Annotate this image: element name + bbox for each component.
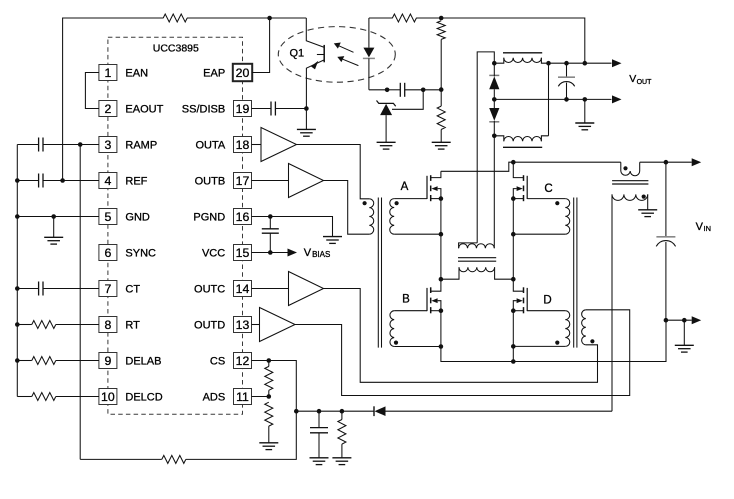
wire A winding bottom lead [394,233,441,235]
transistor Q1 base bar [323,45,325,62]
resistor R-CSfilter [338,420,346,445]
node Vout cap bottom [564,97,569,102]
transformer T3 primary winding [582,310,586,345]
wire REF pin4 line [17,180,38,182]
diode D-CS [373,406,375,416]
node ADS junction [267,394,272,399]
wire PGND pin16 line [252,217,333,237]
node Vin- junction [664,318,669,323]
node CD midpoint [511,277,516,282]
transistor QB channel [430,287,432,293]
wire OUTB pin17 to buffer [252,180,289,182]
diode D-opto LED [368,18,370,48]
transistor QA body arrow [431,186,437,191]
capacitor C-REF [38,174,40,188]
wire bridge return rail [513,320,666,361]
wire OUTA pin18 to buffer [252,144,262,146]
svg-text:BIAS: BIAS [312,250,330,259]
wire cap to divider [405,89,442,91]
inductor L-out-lower core [503,146,542,148]
wire VCC pin15 line [252,252,288,254]
wire OUTD pin13 to buffer [252,324,260,326]
ground zener [385,115,387,142]
svg-text:ADS: ADS [203,392,226,404]
transistor QD gate bar [526,288,528,311]
svg-text:EAOUT: EAOUT [125,104,163,116]
pin 14 OUTC box [234,281,252,297]
ground CS transformer [647,194,649,209]
wire B winding bottom lead [394,346,441,348]
node A source [439,196,444,201]
pin 11 ADS box [234,389,252,405]
svg-text:OUT: OUT [637,79,653,86]
svg-text:V: V [696,221,704,233]
inductor L-out-upper [494,58,504,63]
svg-text:VCC: VCC [202,248,225,260]
node divider top [439,16,444,21]
optocoupler dashed ellipse [278,27,395,83]
wire gate lead C [527,198,565,200]
svg-text:EAN: EAN [125,68,148,80]
svg-text:GND: GND [125,212,149,224]
transistor QD drain [513,279,523,291]
capacitor C-RAMP [38,138,40,152]
svg-text:PGND: PGND [193,212,225,224]
node comp mid [421,88,426,93]
node zener top [385,88,390,93]
svg-text:UCC3895: UCC3895 [153,43,199,55]
transistor QA drain [431,171,441,177]
wire Vin+ line right [640,161,666,163]
wire bottom RAMP return [80,458,162,460]
transformer T4 secondary winding [612,194,648,200]
buffer U-D [260,308,296,342]
wire CS sense line [385,410,612,412]
pin 2 EAOUT box [99,101,117,117]
wire gate lead D [527,310,565,312]
wire ADS pin11 line [252,396,269,398]
transistor QB drain [431,279,441,291]
node CS cap junction [317,409,322,414]
capacitor C-in [665,162,667,236]
svg-text:D: D [543,295,551,307]
resistor R-RT [32,321,56,329]
transistor Q1 base stub [317,54,324,56]
svg-text:3: 3 [104,138,111,152]
wire C winding bottom lead [513,233,565,235]
transistor QC drain [513,162,523,177]
wire left leg upper [440,199,442,280]
node B source [439,308,444,313]
transformer T3 secondary C winding [565,199,569,235]
transformer T4 core [612,180,648,182]
svg-text:6: 6 [104,246,111,260]
svg-text:OUTA: OUTA [195,140,225,152]
svg-text:11: 11 [236,390,249,404]
svg-text:CS: CS [210,356,225,368]
node DELAB-bus junction [15,358,20,363]
pin 6 SYNC box [99,245,117,261]
svg-text:V: V [629,73,636,85]
svg-text:12: 12 [236,354,250,368]
pin 8 RT box [99,317,117,333]
transformer T2 primary winding [369,199,373,234]
wire OUTA route [297,145,370,199]
ground CS cap [310,457,329,459]
svg-text:7: 7 [104,282,111,296]
arrow Vin- [692,316,702,324]
buffer U-B [289,164,324,198]
wire RAMP pin3 to bus [17,144,38,146]
transformer T3 secondary D dot [555,341,559,345]
wire DELCD pin10 line [17,396,32,398]
node AB midpoint [439,277,444,282]
node GND-bus junction [15,214,20,219]
wire CS filter line [296,410,374,412]
resistor R-top-right [392,14,416,22]
wire gate lead A [394,198,427,200]
wire DELAB pin9 line [17,360,32,362]
pin 19 SS/DISB box [234,101,252,117]
svg-text:18: 18 [236,138,250,152]
pin 10 DELCD box [99,389,117,405]
resistor R-top-left [163,14,187,22]
arrow Vin+ [692,158,702,166]
node Vout cap top [564,61,569,66]
node D source [511,308,516,313]
wire Vout+ rail [549,62,612,64]
svg-text:RAMP: RAMP [125,140,157,152]
inductor L-out-upper core [503,52,542,54]
svg-text:SS/DISB: SS/DISB [182,104,225,116]
wire OUTC route [324,289,598,383]
svg-text:A: A [401,181,409,193]
node RT-bus junction [15,322,20,327]
pin 16 PGND box [234,209,252,225]
pin 9 DELAB box [99,353,117,369]
wire GND pin5 line [17,216,99,218]
resistor R-bottom [162,455,186,463]
transformer T2 secondary B dot [394,341,398,345]
node rect mid [492,97,497,102]
optocoupler light arrow 1 [337,45,354,53]
svg-text:16: 16 [236,210,250,224]
svg-text:8: 8 [104,318,111,332]
node GND-ground junction [51,214,56,219]
svg-text:Q1: Q1 [290,47,305,59]
transformer T4 primary dot [623,166,627,170]
capacitor C-out [566,63,568,76]
transistor Q1 emitter with arrow [306,60,323,108]
wire LED to zener node [369,89,387,91]
diode Dz zener [377,101,396,107]
svg-text:OUTD: OUTD [194,320,225,332]
transformer T4 primary winding [621,162,640,176]
capacitor C-CT [38,282,40,296]
pin 18 OUTA box [234,137,252,153]
svg-text:2: 2 [104,102,111,116]
node bridge return [511,359,516,364]
pin 13 OUTD box [234,317,252,333]
svg-text:EAP: EAP [203,68,225,80]
resistor R-divider-lower [437,106,445,129]
wire right leg lower [512,311,514,362]
wire right leg upper [512,199,514,280]
wire OUTD route [295,310,630,396]
svg-text:V: V [304,247,312,259]
optocoupler light arrow 2 [340,58,358,65]
VBIAS arrow [288,249,298,257]
transformer T2 core [377,198,379,348]
transformer T2 secondary A dot [395,201,399,205]
resistor R-DELAB [32,357,56,365]
transistor QC channel [523,175,525,181]
svg-text:C: C [544,183,552,195]
pin 7 CT box [99,281,117,297]
transformer T1 secondary riser left [477,52,494,243]
wire SS pin19 line [252,108,272,110]
node rect bottom [492,134,497,139]
wire zener node to cap [387,89,400,91]
wire CS sense riser [611,194,613,411]
wire Vin- line [666,319,692,321]
pin 3 RAMP box [99,137,117,153]
svg-text:14: 14 [236,282,250,296]
capacitor C-CSfilter [310,427,328,429]
IC U1 UCC3895 dashed outline [108,37,243,414]
transistor QB source [431,310,441,312]
node VCC junction [268,250,273,255]
svg-text:15: 15 [236,246,250,260]
wire divider mid [440,39,442,89]
capacitor C-VCC [262,228,279,230]
ground Vout [584,99,586,123]
diode D-rect-upper [489,74,499,76]
wire OUTB route [324,181,370,235]
node Vout gnd junction [583,97,588,102]
node RAMP junction [78,142,83,147]
inductor L-out-lower [494,136,504,141]
resistor R-CS-upper [265,366,273,390]
arrow Vout- [612,95,622,103]
transistor QD source [513,310,523,312]
wire EAP pin20 riser [252,18,270,73]
wire top-left from REF to Q1 collector [63,18,164,181]
node Vin gnd junction [682,318,687,323]
node CT-bus junction [15,286,20,291]
transformer T2 secondary B winding [390,311,394,347]
svg-text:17: 17 [236,174,250,188]
svg-text:OUTB: OUTB [195,176,226,188]
node top wire / pin20 riser [267,16,272,21]
wire Vin+ line left [513,161,621,163]
svg-text:REF: REF [125,176,147,188]
wire RT pin8 line [17,324,32,326]
transformer T4 secondary dot [642,195,646,199]
node B winding return [439,344,444,349]
transformer T3 secondary D winding [565,311,569,347]
node REF-bus junction [15,178,20,183]
wire EAN-EAOUT feedback bracket [85,73,99,109]
transistor QC source [513,198,523,200]
svg-text:RT: RT [125,320,140,332]
transformer T1 primary winding [441,267,459,279]
node REF-topwire junction [60,178,65,183]
svg-text:DELAB: DELAB [125,356,161,368]
wire CS pin12 line [252,360,269,362]
transformer T3 secondary C dot [555,201,559,205]
wire left bus vertical [16,145,18,397]
svg-text:9: 9 [104,354,111,368]
node CS res junction [340,409,345,414]
svg-text:OUTC: OUTC [194,284,225,296]
node Vout feed top [583,61,588,66]
ground divider [440,130,442,143]
buffer U-C [289,272,324,306]
pin 4 REF box [99,173,117,189]
node C source [511,196,516,201]
transistor QC body arrow [517,186,523,191]
ground CS divider [268,426,270,443]
pin 12 CS box [234,353,252,369]
node rect top [492,61,497,66]
svg-text:4: 4 [104,174,111,188]
node C winding return [511,232,516,237]
pin 20 EAP box [233,64,252,81]
transistor QC gate bar [526,176,528,199]
svg-text:1: 1 [104,66,111,80]
transistor Q1 collector [306,18,323,47]
wire D winding bottom lead [513,345,565,347]
svg-text:10: 10 [101,390,115,404]
wire bridge top rail [441,162,513,171]
transformer T1 secondary riser right [493,136,495,248]
ground CS res [332,457,351,459]
node divider mid [439,87,444,92]
node CD top [511,160,516,165]
node A gate-winding return [439,232,444,237]
transistor QA channel [430,175,432,181]
svg-text:13: 13 [236,318,250,332]
svg-text:IN: IN [704,224,712,233]
svg-text:19: 19 [236,102,250,116]
svg-text:5: 5 [104,210,111,224]
ground PGND [323,236,342,238]
wire Vout- rail [494,98,611,100]
ground Vin [683,320,685,345]
transistor QB gate bar [426,288,428,311]
node SS / Q1 emitter [304,106,309,111]
ground GND pin5 [53,217,55,238]
arrow Vout+ [612,59,622,67]
wire RAMP drop vertical [79,145,81,460]
wire comp tap [392,90,423,110]
node doubler junction [546,61,551,66]
transformer T1 secondary winding [459,243,478,248]
transformer T1 core [458,257,496,259]
resistor R-CS-lower [265,402,273,426]
diode D-rect-lower [489,108,499,121]
transformer T2 secondary A winding [390,199,394,235]
svg-text:SYNC: SYNC [125,248,156,260]
transistor QA source [431,198,441,200]
svg-text:B: B [402,294,410,306]
wire left leg lower [441,311,513,362]
pin 15 VCC box [234,245,252,261]
transistor QD channel [523,287,525,293]
svg-text:CT: CT [125,284,140,296]
transformer T3 core [573,198,575,348]
pin 5 GND box [99,209,117,225]
capacitor C-SS [270,102,272,116]
resistor R-divider-upper [437,21,445,40]
svg-text:DELCD: DELCD [125,392,162,404]
wire top-right V_OUT feed [369,17,393,19]
node CS filter left [294,409,299,414]
wire gate lead B [394,310,427,312]
node D winding return [511,344,516,349]
svg-text:20: 20 [236,66,250,80]
transformer T2 primary dot [363,201,367,205]
transformer T3 primary dot [590,339,594,343]
wire doubler riser [548,63,550,136]
resistor R-DELCD [32,393,56,401]
wire OUTC pin14 to buffer [252,288,289,290]
capacitor C-comp [399,83,401,97]
buffer U-A [261,128,297,162]
ground Q1 emitter [305,109,307,130]
pin 1 EAN box [99,65,117,81]
transistor QA gate bar [426,176,428,199]
node Vin cap top [664,160,669,165]
node PGND cap junction [268,214,273,219]
wire CT pin7 line [17,288,38,290]
node CS junction [267,358,272,363]
pin 17 OUTB box [234,173,252,189]
transistor QB body arrow [431,298,437,303]
transistor QD body arrow [517,298,523,303]
